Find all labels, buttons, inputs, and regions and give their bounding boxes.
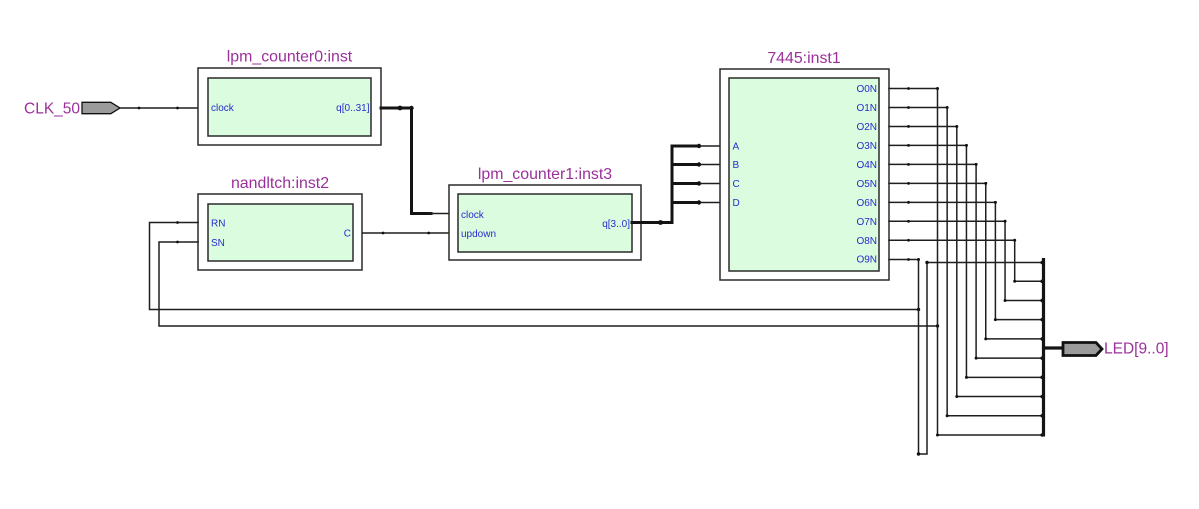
wire into lpm_counter1 clock [429, 213, 449, 215]
wire net O7N to LED[7] bus entry [889, 221, 1044, 300]
bend of O5N wire [984, 182, 987, 341]
bus stub to input D of 7445 [672, 201, 700, 204]
svg-text:O1N: O1N [856, 103, 877, 114]
wire net O2N to LED[2] bus entry [889, 126, 1044, 396]
block nandltch inner box [208, 204, 353, 261]
bend blob on q2 bus [658, 220, 663, 225]
bend of O4N wire [975, 163, 978, 360]
svg-text:O3N: O3N [856, 141, 877, 152]
wire net O9N down around to LED[9] bus entry [889, 260, 1044, 455]
svg-text:A: A [733, 142, 740, 153]
wire into pin C of 7445 [700, 183, 720, 185]
blob at end of D stub [697, 200, 701, 204]
dot on O1N wire [907, 106, 910, 109]
block lpm_counter1 title [478, 166, 612, 183]
pin label clock of lpm_counter0 [211, 103, 235, 114]
dot on SN wire [176, 241, 179, 244]
svg-text:LED[9..0]: LED[9..0] [1104, 341, 1169, 358]
junction SN feedback at O0N vertical [936, 324, 939, 327]
input pin CLK_50 name label [24, 101, 80, 118]
pin label q[3..0] of lpm_counter1 [602, 219, 630, 230]
wire C output of nandltch to updown of lpm_counter1 [362, 232, 449, 234]
dot on O8N wire [907, 239, 910, 242]
svg-text:D: D [733, 198, 740, 209]
bend blob on q bus [398, 106, 414, 111]
block lpm_counter0 inner box [208, 78, 371, 136]
wire into pin A of 7445 [700, 145, 720, 147]
bus stub to input A of 7445 [672, 145, 700, 148]
bends of O9N wire [917, 258, 929, 456]
svg-text:C: C [733, 179, 740, 190]
wire CLK_50 to lpm_counter0 clock [120, 107, 198, 109]
svg-text:clock: clock [211, 103, 235, 114]
svg-text:SN: SN [211, 238, 225, 249]
svg-text:updown: updown [461, 229, 496, 240]
bus wire q[3..0] output of lpm_counter1 [632, 146, 672, 223]
wire net O8N to LED[8] bus entry [889, 240, 1044, 281]
wire net O6N to LED[6] bus entry [889, 202, 1044, 319]
svg-text:O8N: O8N [856, 236, 877, 247]
dot on O9N wire [907, 258, 910, 261]
wire net O5N to LED[5] bus entry [889, 183, 1044, 339]
svg-text:O7N: O7N [856, 217, 877, 228]
bus stub to LED output pin [1044, 346, 1065, 349]
svg-text:O4N: O4N [856, 160, 877, 171]
svg-text:clock: clock [461, 210, 485, 221]
bus stub to input B of 7445 [672, 163, 700, 166]
dot on O6N wire [907, 201, 910, 204]
svg-text:q[0..31]: q[0..31] [336, 103, 370, 114]
wire into pin D of 7445 [700, 202, 720, 204]
pin label O4N of 7445 [856, 160, 877, 171]
pin label clock of lpm_counter1 [461, 210, 485, 221]
bend of O3N wire [965, 144, 968, 379]
dot on O2N wire [907, 125, 910, 128]
pin label O9N of 7445 [856, 255, 877, 266]
bus LED[9..0] vertical [1042, 258, 1045, 437]
wire net O1N to LED[1] bus entry [889, 107, 1044, 415]
dot on O0N wire [907, 87, 910, 90]
block nandltch outer box [198, 194, 362, 270]
pin label O7N of 7445 [856, 217, 877, 228]
dot on O3N wire [907, 144, 910, 147]
pin label A of 7445 [733, 142, 740, 153]
blob at end of C stub [697, 181, 701, 185]
svg-text:lpm_counter0:inst: lpm_counter0:inst [227, 49, 353, 66]
bend of O7N wire [1004, 220, 1007, 302]
svg-text:O5N: O5N [856, 179, 877, 190]
wire net O4N to LED[4] bus entry [889, 164, 1044, 358]
bend of O2N wire [955, 125, 958, 398]
dot on O4N wire [907, 163, 910, 166]
dot on O5N wire [907, 182, 910, 185]
pin label q[0..31] of lpm_counter0 [336, 103, 370, 114]
blob at end of B stub [697, 162, 701, 166]
pin label O8N of 7445 [856, 236, 877, 247]
pin label C of nandltch [344, 229, 351, 240]
svg-text:lpm_counter1:inst3: lpm_counter1:inst3 [478, 166, 612, 183]
pin label O6N of 7445 [856, 198, 877, 209]
output pin LED[9..0] name label [1104, 341, 1169, 358]
svg-text:O0N: O0N [856, 84, 877, 95]
input pin CLK_50 symbol [82, 102, 120, 113]
junction RN feedback at O9N vertical [917, 308, 920, 311]
bus wire q[0..31] output of lpm_counter0 [381, 108, 431, 214]
svg-text:O9N: O9N [856, 255, 877, 266]
bus entry junction nubs on LED bus [1040, 261, 1044, 437]
block lpm_counter0 outer box [198, 68, 381, 145]
pin label updown of lpm_counter1 [461, 229, 496, 240]
dot on RN wire [176, 221, 179, 224]
svg-text:RN: RN [211, 219, 225, 230]
svg-text:B: B [733, 160, 740, 171]
bend of O8N wire [1013, 239, 1016, 283]
pin label O2N of 7445 [856, 122, 877, 133]
blob at end of A stub [697, 144, 701, 148]
wire net O3N to LED[3] bus entry [889, 145, 1044, 377]
svg-text:O2N: O2N [856, 122, 877, 133]
block 7445 title [767, 50, 840, 67]
wire RN feedback from O9N vertical [150, 223, 919, 310]
pin label RN of nandltch [211, 219, 225, 230]
pin label O5N of 7445 [856, 179, 877, 190]
bus stub to input C of 7445 [672, 182, 700, 185]
svg-text:nandltch:inst2: nandltch:inst2 [231, 175, 329, 192]
wire net O0N to LED[0] bus entry [889, 89, 1044, 436]
block lpm_counter1 inner box [458, 194, 632, 252]
output pin LED[9..0] symbol [1063, 343, 1102, 356]
pin label C of 7445 [733, 179, 740, 190]
dot on O7N wire [907, 220, 910, 223]
dots on C wire [382, 232, 431, 235]
svg-text:q[3..0]: q[3..0] [602, 219, 630, 230]
wire SN feedback from O0N vertical [159, 242, 938, 326]
block 7445 inner box [729, 78, 879, 271]
bend of O1N wire [946, 106, 949, 417]
pin label O1N of 7445 [856, 103, 877, 114]
block lpm_counter0 title [227, 49, 353, 66]
pin label O0N of 7445 [856, 84, 877, 95]
pin label SN of nandltch [211, 238, 225, 249]
bend of O0N wire [936, 87, 939, 437]
pin label D of 7445 [733, 198, 740, 209]
block nandltch title [231, 175, 329, 192]
block 7445 outer box [720, 69, 889, 280]
pin label B of 7445 [733, 160, 740, 171]
junction dot on CLK_50 wire [138, 107, 179, 110]
svg-text:7445:inst1: 7445:inst1 [767, 50, 840, 67]
svg-text:O6N: O6N [856, 198, 877, 209]
bend of O6N wire [994, 201, 997, 321]
block lpm_counter1 outer box [449, 185, 641, 260]
pin label O3N of 7445 [856, 141, 877, 152]
wire into pin B of 7445 [700, 164, 720, 166]
svg-text:CLK_50: CLK_50 [24, 101, 80, 118]
svg-text:C: C [344, 229, 351, 240]
